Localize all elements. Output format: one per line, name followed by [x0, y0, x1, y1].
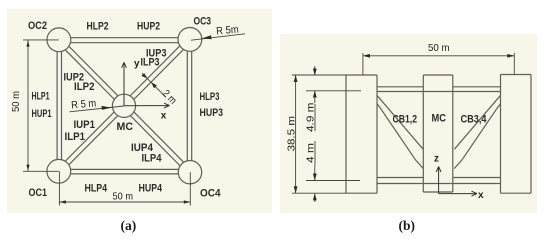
dimension line between 4.9m and 4m texts: [314, 104, 316, 165]
svg-text:MC: MC: [432, 113, 447, 125]
column OC2: [47, 28, 71, 52]
svg-text:OC3: OC3: [194, 16, 212, 28]
svg-text:HUP1: HUP1: [32, 108, 52, 120]
center column MC: [423, 75, 453, 192]
dimension line 4.9m upper tail: [314, 66, 316, 75]
svg-text:R 5 m: R 5 m: [71, 97, 97, 111]
arrowhead 2m lower: [151, 82, 157, 88]
svg-text:HLP3: HLP3: [200, 91, 220, 103]
svg-text:OC1: OC1: [29, 187, 48, 199]
left outer column: [346, 75, 377, 193]
arrowhead 50m left bottom: [26, 165, 29, 171]
arrowhead 4.9m down at beam top level: [313, 69, 317, 76]
svg-text:MC: MC: [117, 121, 134, 133]
extension line top dim right: [513, 53, 515, 74]
svg-text:50 m: 50 m: [10, 91, 22, 112]
svg-text:CB1,2: CB1,2: [393, 114, 418, 126]
arrowhead 50m top right: [507, 54, 514, 58]
member HLP2/HUP2 top chord OC2-OC3: [59, 38, 190, 43]
top beam flange: [377, 87, 501, 92]
svg-text:HUP3: HUP3: [200, 107, 224, 119]
svg-text:50 m: 50 m: [113, 190, 134, 202]
dimension line 4.9m lower tail: [314, 91, 316, 103]
extension line OC2 left: [23, 39, 59, 41]
svg-text:ILP3: ILP3: [141, 57, 160, 69]
member HLP1/HUP1 left chord OC2-OC1: [57, 40, 61, 172]
svg-text:HLP2: HLP2: [87, 21, 109, 33]
svg-text:4 m: 4 m: [304, 143, 316, 163]
svg-text:ILP4: ILP4: [142, 153, 163, 165]
svg-text:(b): (b): [399, 218, 416, 233]
arrowhead 50m bottom left: [59, 200, 66, 203]
extension line 4m chord top: [306, 180, 360, 182]
dimension line 2 m across diagonal: [142, 73, 166, 97]
extension line OC1 left: [23, 170, 59, 172]
extension line OC1 bottom: [58, 171, 60, 205]
cable brace CB1,2 left diagonal: [377, 96, 423, 169]
svg-text:HUP4: HUP4: [139, 183, 163, 195]
dimension line 4m lower tail with arrow: [314, 165, 316, 180]
dimension line 4m below-bottom tail: [314, 193, 316, 202]
bottom chord: [377, 178, 501, 184]
leader line R 5 m to MC: [70, 106, 125, 112]
z axis arrow: [436, 167, 441, 194]
extension line top dim left: [362, 53, 364, 75]
svg-text:x: x: [161, 111, 167, 122]
arrowhead R5m OC3: [202, 35, 212, 39]
svg-text:x: x: [478, 190, 484, 201]
svg-text:ILP1: ILP1: [65, 131, 86, 143]
member diagonal OC3-MC-OC1: [57, 38, 192, 174]
extension line 38.5m bottom: [292, 192, 346, 194]
svg-text:ILP2: ILP2: [74, 81, 95, 93]
panel (b) background: [280, 34, 537, 213]
member diagonal OC2-MC-OC4: [57, 38, 192, 174]
svg-text:HUP2: HUP2: [137, 21, 160, 33]
panel (a) background: [7, 9, 272, 213]
extension line OC4 bottom: [189, 172, 191, 205]
svg-text:(a): (a): [121, 218, 137, 233]
svg-text:HLP4: HLP4: [85, 183, 108, 195]
arrowhead 4m down at chord top level: [313, 174, 317, 181]
dimension line 38.5 m: [295, 75, 297, 193]
dimension line 50m bottom: [59, 201, 190, 203]
svg-text:OC4: OC4: [200, 188, 221, 200]
svg-text:y: y: [134, 59, 140, 70]
arrowhead 50m top left: [363, 54, 370, 58]
column OC4: [178, 161, 201, 184]
arrowhead 50m left top: [26, 41, 29, 47]
svg-text:IUP1: IUP1: [74, 119, 96, 131]
svg-text:50 m: 50 m: [428, 42, 450, 54]
svg-text:4.9 m: 4.9 m: [304, 102, 316, 132]
cable brace CB3,4 right diagonal: [454, 96, 500, 169]
x axis arrow: [439, 191, 477, 196]
dimension line 50 m top: [363, 55, 514, 57]
arrowhead 38.5m bottom: [294, 186, 298, 193]
svg-text:z: z: [434, 154, 439, 165]
extension line 4.9m beam bottom: [306, 90, 361, 92]
column OC3: [178, 28, 202, 52]
arrowhead 4m up at ground level: [313, 193, 317, 200]
svg-text:CB3,4: CB3,4: [461, 114, 488, 126]
x axis arrow at MC: [124, 103, 170, 108]
column MC center: [112, 94, 135, 117]
svg-text:38.5 m: 38.5 m: [286, 116, 298, 152]
arrowhead 2m upper: [141, 73, 147, 78]
column OC1: [47, 159, 71, 183]
svg-text:OC2: OC2: [28, 20, 47, 32]
arrowhead 4.9m up at beam bottom level: [313, 91, 317, 98]
right outer column: [501, 75, 532, 194]
arrowhead 38.5m top: [294, 75, 298, 82]
svg-text:R 5m: R 5m: [216, 24, 240, 38]
leader line R 5m to OC3: [191, 34, 245, 40]
y axis arrow at MC: [122, 62, 127, 106]
extension line 38.5m top: [292, 74, 346, 76]
member HLP4/HUP4 bottom chord OC1-OC4: [59, 169, 190, 174]
member HLP3/HUP3 right chord OC3-OC4: [187, 39, 191, 172]
dimension line 50m left: [27, 40, 29, 171]
svg-text:HLP1: HLP1: [32, 91, 50, 103]
arrowhead 50m bottom right: [184, 200, 191, 203]
svg-text:2 m: 2 m: [160, 88, 179, 107]
arrowhead R5 m MC: [102, 106, 112, 110]
